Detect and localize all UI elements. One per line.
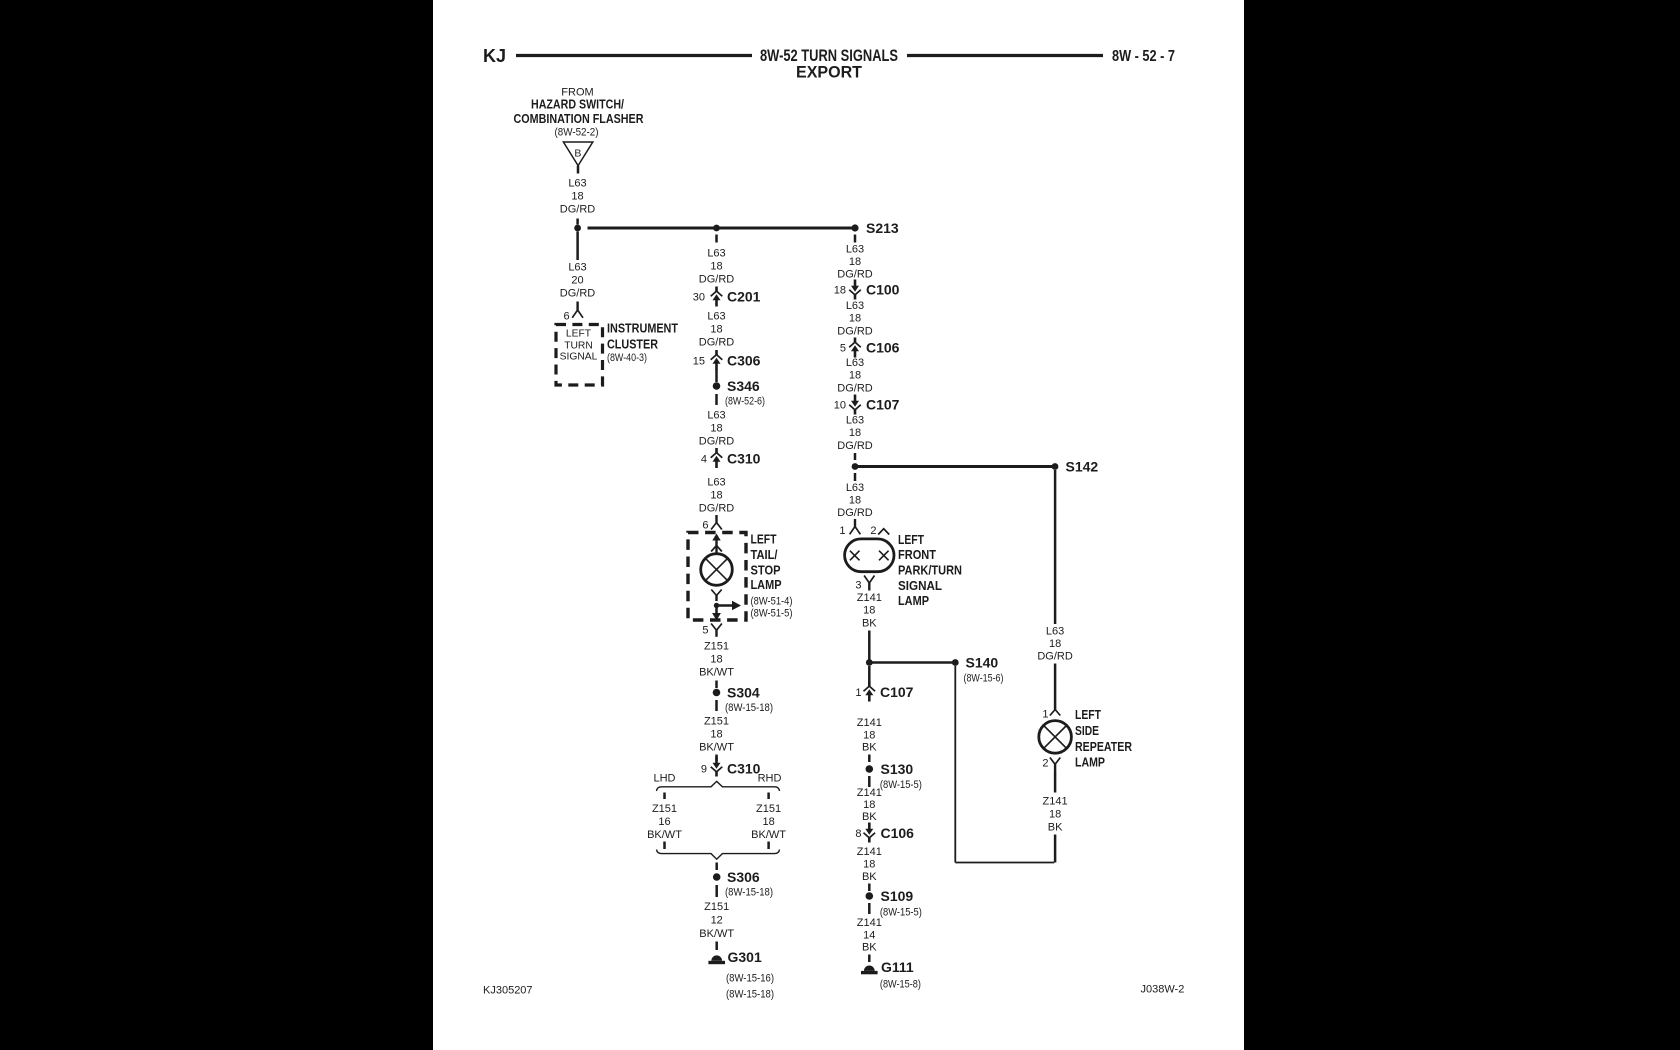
svg-text:BK/WT: BK/WT [751, 829, 786, 841]
front lamp body (stadium) [845, 539, 894, 572]
svg-text:(8W-15-8): (8W-15-8) [880, 979, 921, 991]
svg-text:Z141: Z141 [857, 717, 882, 729]
svg-text:KJ305207: KJ305207 [483, 985, 533, 997]
wire label L63 18 DG/RD [699, 311, 735, 349]
tail lamp bulb [701, 554, 733, 586]
svg-text:(8W-15-16): (8W-15-16) [726, 973, 774, 985]
svg-text:INSTRUMENT: INSTRUMENT [607, 321, 678, 336]
svg-text:16: 16 [658, 816, 670, 828]
svg-text:1: 1 [855, 687, 861, 699]
svg-text:LEFT: LEFT [566, 329, 592, 340]
svg-text:G111: G111 [881, 959, 914, 975]
internal arrow down to pin 5 [712, 606, 721, 621]
svg-text:CLUSTER: CLUSTER [607, 337, 659, 352]
component label LEFT SIDE REPEATER LAMP [1075, 708, 1132, 770]
svg-text:(8W-52-6): (8W-52-6) [725, 396, 765, 408]
wire label Z141 18 BK [857, 787, 882, 823]
svg-text:8W - 52 - 7: 8W - 52 - 7 [1112, 48, 1175, 65]
wire below junction [868, 666, 871, 683]
wire dash above S304 [715, 681, 718, 689]
svg-text:S140: S140 [966, 655, 999, 671]
svg-text:C310: C310 [727, 761, 761, 777]
wire dash below S306 [715, 885, 718, 897]
connector C107 pin 10 [834, 395, 900, 415]
svg-text:5: 5 [840, 343, 846, 355]
internal arrow to right (8W-51) [717, 601, 742, 610]
wire to corner [1054, 835, 1057, 863]
wire label L63 18 DG/RD [837, 415, 873, 453]
svg-text:BK/WT: BK/WT [699, 667, 734, 679]
svg-text:(8W-51-5): (8W-51-5) [751, 608, 793, 620]
wire label L63 20 DG/RD [560, 262, 596, 300]
wire label L63 18 DG/RD [699, 477, 735, 515]
svg-text:BK: BK [862, 942, 877, 954]
svg-text:BK/WT: BK/WT [699, 742, 734, 754]
svg-text:DG/RD: DG/RD [699, 337, 735, 349]
RHD wire dash lower [767, 842, 770, 850]
svg-text:SIGNAL: SIGNAL [898, 579, 942, 593]
wire label Z141 14 BK [857, 917, 882, 954]
bus wire to S213 [588, 227, 856, 230]
svg-text:B: B [574, 148, 581, 160]
wire label Z151 12 BK/WT [699, 901, 734, 940]
wire label L63 18 DG/RD [837, 482, 873, 519]
wire label L63 18 DG/RD [837, 244, 873, 281]
wire label Z141 18 BK [857, 592, 882, 630]
svg-text:18: 18 [834, 285, 846, 297]
wire label Z151 16 BK/WT (LHD) [647, 803, 682, 841]
svg-text:L63: L63 [568, 178, 586, 190]
instrument cluster internal label LEFT TURN SIGNAL [560, 329, 598, 363]
splice S346 (8W-52-6) [713, 378, 765, 408]
wire label Z141 18 BK [857, 846, 882, 883]
wire label Z141 18 BK [857, 717, 882, 754]
pin 6 of instrument cluster [563, 302, 583, 323]
svg-text:20: 20 [571, 275, 583, 287]
wire label Z151 18 BK/WT [699, 716, 734, 754]
wire label Z151 18 BK/WT (RHD) [751, 803, 786, 841]
svg-text:30: 30 [693, 292, 705, 304]
svg-text:(8W-51-4): (8W-51-4) [751, 596, 793, 608]
wire to instrument cluster [576, 232, 579, 261]
wire from triangle B [577, 166, 580, 174]
svg-text:18: 18 [863, 859, 875, 871]
pin 2 of left side repeater lamp [1042, 758, 1060, 772]
svg-text:BK/WT: BK/WT [647, 829, 682, 841]
svg-text:15: 15 [693, 356, 705, 368]
svg-text:Z141: Z141 [1043, 796, 1068, 808]
svg-text:FRONT: FRONT [898, 548, 936, 562]
svg-text:BK: BK [862, 811, 877, 823]
wire label Z141 18 BK [1043, 796, 1068, 834]
front lamp filament X right [879, 551, 889, 561]
ground G111 (8W-15-8) [861, 959, 921, 991]
svg-text:S142: S142 [1066, 459, 1099, 475]
svg-text:18: 18 [849, 313, 861, 325]
svg-text:LEFT: LEFT [1075, 708, 1101, 722]
svg-text:18: 18 [863, 605, 875, 617]
wire to pin 1 [1054, 664, 1057, 710]
svg-text:S346: S346 [727, 378, 760, 394]
svg-text:S213: S213 [866, 220, 899, 236]
wire from S142 down to repeater lamp [1054, 470, 1057, 624]
svg-text:14: 14 [863, 930, 875, 942]
off-page connector triangle B [563, 142, 592, 166]
header rule left [516, 54, 752, 57]
svg-text:18: 18 [710, 261, 722, 273]
svg-text:PARK/TURN: PARK/TURN [898, 564, 962, 578]
wire label L63 18 DG/RD [560, 178, 596, 216]
splice S304 (8W-15-18) [713, 685, 773, 715]
splice S130 (8W-15-5) [866, 761, 922, 791]
LHD wire dash [663, 793, 666, 800]
wire label L63 18 DG/RD [699, 410, 735, 448]
wire label L63 18 DG/RD [1037, 626, 1073, 663]
svg-text:Z151: Z151 [704, 641, 729, 653]
svg-text:DG/RD: DG/RD [1037, 651, 1073, 663]
svg-text:BK: BK [862, 871, 877, 883]
svg-text:DG/RD: DG/RD [699, 436, 735, 448]
pin 6 of left tail lamp [702, 515, 722, 532]
svg-text:2: 2 [870, 525, 876, 537]
LHD wire dash lower [663, 842, 666, 850]
wire dash above S109 [868, 884, 871, 892]
svg-text:Z151: Z151 [704, 716, 729, 728]
pin 1 of left side repeater lamp [1042, 709, 1060, 721]
svg-text:1: 1 [839, 525, 845, 537]
wire dash below S346 [715, 394, 718, 405]
wire label L63 18 DG/RD [837, 357, 873, 395]
svg-text:L63: L63 [846, 357, 864, 369]
junction node middle [713, 225, 720, 232]
splice S142 [1052, 459, 1099, 475]
left tail/stop lamp dashed box [688, 533, 746, 621]
wire dash below S130 [868, 776, 871, 787]
svg-text:C201: C201 [727, 289, 761, 305]
junction node to S140 [866, 659, 873, 666]
wire dash above G301 [715, 942, 718, 951]
repeater lamp bulb [1039, 721, 1072, 754]
svg-text:(8W-15-5): (8W-15-5) [880, 779, 922, 791]
wire dash below S304 [715, 700, 718, 711]
svg-text:EXPORT: EXPORT [796, 64, 862, 82]
RHD wire dash [767, 793, 770, 800]
pin 3 of left front park/turn signal lamp [855, 576, 874, 592]
svg-text:1: 1 [1042, 709, 1048, 721]
svg-text:(8W-15-18): (8W-15-18) [726, 989, 774, 1001]
wire dash below junction [715, 235, 718, 243]
wire dash above junction [854, 453, 857, 460]
splice S109 (8W-15-5) [866, 888, 922, 919]
svg-text:DG/RD: DG/RD [560, 204, 596, 216]
svg-text:18: 18 [849, 427, 861, 439]
svg-text:SIDE: SIDE [1075, 724, 1099, 738]
svg-text:REPEATER: REPEATER [1075, 740, 1132, 754]
svg-text:C106: C106 [881, 825, 915, 841]
svg-text:DG/RD: DG/RD [837, 507, 873, 519]
svg-text:Z151: Z151 [756, 803, 781, 815]
svg-text:TURN: TURN [564, 341, 593, 352]
wire below pin 2 [1054, 772, 1057, 793]
svg-text:BK: BK [862, 742, 877, 754]
svg-text:18: 18 [1049, 638, 1061, 650]
svg-text:Z141: Z141 [857, 846, 882, 858]
svg-text:L63: L63 [707, 410, 725, 422]
wire dash above S130 [868, 755, 871, 763]
svg-text:DG/RD: DG/RD [837, 326, 873, 338]
internal Y pin below bulb [711, 590, 721, 602]
svg-text:L63: L63 [707, 477, 725, 489]
svg-text:RHD: RHD [758, 773, 782, 785]
wire dash above S306 [715, 863, 718, 871]
component label INSTRUMENT CLUSTER (8W-40-3) [607, 321, 678, 364]
svg-text:S304: S304 [727, 685, 760, 701]
svg-text:Z141: Z141 [857, 917, 882, 929]
wire label L63 18 DG/RD [837, 300, 873, 338]
bus wire to S142 [855, 465, 1055, 468]
header rule right [907, 54, 1103, 57]
svg-text:L63: L63 [568, 262, 586, 274]
male pin inside tail lamp [711, 534, 722, 553]
svg-text:DG/RD: DG/RD [699, 503, 735, 515]
svg-text:BK: BK [862, 618, 877, 630]
svg-text:DG/RD: DG/RD [837, 383, 873, 395]
svg-text:10: 10 [834, 400, 846, 412]
svg-text:STOP: STOP [751, 564, 781, 578]
svg-text:8: 8 [855, 828, 861, 840]
svg-text:18: 18 [1049, 809, 1061, 821]
connector C107 pin 1 [855, 682, 913, 702]
svg-text:DG/RD: DG/RD [560, 288, 596, 300]
wire label L63 18 DG/RD [699, 248, 735, 286]
svg-text:LAMP: LAMP [751, 578, 782, 592]
svg-text:BK: BK [1048, 822, 1063, 834]
svg-text:18: 18 [849, 370, 861, 382]
svg-text:S306: S306 [727, 869, 760, 885]
svg-text:2: 2 [1042, 758, 1048, 770]
wire from S140 to repeater lamp return [955, 862, 1054, 864]
svg-text:18: 18 [863, 799, 875, 811]
svg-text:L63: L63 [846, 482, 864, 494]
bus wire to S140 [869, 661, 955, 664]
LHD/RHD option brace top [657, 781, 780, 791]
svg-text:6: 6 [563, 311, 569, 323]
wire dash below S213 [854, 235, 857, 243]
component label LEFT TAIL/STOP LAMP (8W-51-4)(8W-51-5) [751, 533, 793, 620]
svg-text:DG/RD: DG/RD [699, 274, 735, 286]
pin 2 of left front park/turn signal lamp [870, 525, 889, 537]
svg-text:18: 18 [710, 324, 722, 336]
svg-text:J038W-2: J038W-2 [1141, 984, 1185, 996]
wire dash below junction [854, 473, 857, 481]
svg-text:18: 18 [710, 423, 722, 435]
svg-text:L63: L63 [846, 244, 864, 256]
svg-text:18: 18 [849, 256, 861, 268]
pin 5 of left tail lamp [702, 624, 722, 637]
svg-text:C100: C100 [866, 282, 900, 298]
front lamp filament X left [850, 551, 860, 561]
svg-text:18: 18 [762, 816, 774, 828]
instrument cluster dashed box [556, 325, 603, 386]
wire down to junction [868, 631, 871, 663]
svg-text:COMBINATION FLASHER: COMBINATION FLASHER [514, 111, 644, 126]
svg-text:3: 3 [855, 580, 861, 592]
option brace bottom [657, 850, 780, 860]
source label FROM HAZARD SWITCH/COMBINATION FLASHER (8W-52-2) [514, 87, 644, 139]
svg-text:C107: C107 [880, 684, 914, 700]
svg-text:C106: C106 [866, 340, 900, 356]
svg-text:(8W-15-5): (8W-15-5) [880, 907, 922, 919]
svg-text:18: 18 [710, 654, 722, 666]
wire dash above G111 [868, 955, 871, 963]
svg-text:Z141: Z141 [857, 787, 882, 799]
svg-text:6: 6 [702, 520, 708, 532]
junction node left [574, 225, 581, 232]
svg-text:C306: C306 [727, 353, 761, 369]
svg-text:HAZARD SWITCH/: HAZARD SWITCH/ [531, 97, 624, 112]
connector C106 pin 8 [855, 823, 914, 843]
svg-text:L63: L63 [707, 311, 725, 323]
svg-text:18: 18 [863, 730, 875, 742]
splice S306 (8W-15-18) [713, 869, 773, 899]
svg-text:LHD: LHD [653, 773, 675, 785]
svg-text:DG/RD: DG/RD [837, 269, 873, 281]
svg-text:KJ: KJ [483, 46, 506, 66]
svg-text:BK/WT: BK/WT [699, 928, 734, 940]
wire label Z151 18 BK/WT [699, 641, 734, 679]
splice S213 [851, 220, 899, 236]
wire dash above junction [576, 219, 579, 225]
svg-text:C310: C310 [727, 451, 761, 467]
connector C106 pin 5 [840, 338, 900, 358]
svg-text:Z141: Z141 [857, 592, 882, 604]
svg-text:G301: G301 [728, 949, 762, 965]
svg-text:5: 5 [702, 625, 708, 637]
svg-text:8W-52 TURN SIGNALS: 8W-52 TURN SIGNALS [760, 47, 898, 65]
svg-text:LEFT: LEFT [898, 533, 924, 547]
pin 1 of left front park/turn signal lamp [839, 519, 860, 537]
svg-text:L63: L63 [846, 300, 864, 312]
svg-text:(8W-52-2): (8W-52-2) [555, 127, 599, 139]
svg-text:TAIL/: TAIL/ [751, 548, 778, 562]
component label LEFT FRONT PARK/TURN SIGNAL LAMP [898, 533, 962, 608]
svg-text:L63: L63 [707, 248, 725, 260]
svg-text:SIGNAL: SIGNAL [560, 352, 598, 363]
svg-text:LAMP: LAMP [898, 594, 929, 608]
svg-text:Z151: Z151 [652, 803, 677, 815]
splice S140 (8W-15-6) [952, 655, 1004, 685]
svg-text:18: 18 [571, 191, 583, 203]
svg-text:S130: S130 [881, 761, 914, 777]
junction node to S142 [852, 463, 859, 470]
svg-text:18: 18 [710, 729, 722, 741]
wire dash below S109 [868, 903, 871, 914]
svg-text:S109: S109 [881, 888, 914, 904]
svg-text:L63: L63 [1046, 626, 1064, 638]
connector C310 pin 4 [701, 448, 761, 468]
wire into splice S346 [715, 370, 718, 383]
wire from S140 down [954, 666, 956, 863]
svg-text:18: 18 [710, 490, 722, 502]
svg-text:LEFT: LEFT [751, 533, 777, 547]
svg-text:4: 4 [701, 454, 707, 466]
svg-text:LAMP: LAMP [1075, 756, 1105, 770]
ground G301 (8W-15-16)(8W-15-18) [708, 949, 774, 1001]
svg-text:12: 12 [711, 915, 723, 927]
svg-text:(8W-15-18): (8W-15-18) [725, 702, 773, 714]
svg-text:9: 9 [701, 764, 707, 776]
connector C310 pin 9 [701, 755, 761, 777]
connector C306 pin 15 [693, 350, 761, 370]
svg-text:(8W-15-18): (8W-15-18) [725, 887, 773, 899]
svg-text:C107: C107 [866, 397, 900, 413]
svg-text:18: 18 [849, 495, 861, 507]
connector C201 pin 30 [693, 287, 761, 307]
connector C100 pin 18 [834, 280, 900, 300]
svg-text:DG/RD: DG/RD [837, 440, 873, 452]
svg-text:Z151: Z151 [704, 901, 729, 913]
svg-text:L63: L63 [846, 415, 864, 427]
internal junction dot [714, 603, 719, 608]
svg-text:(8W-40-3): (8W-40-3) [607, 352, 647, 364]
svg-text:(8W-15-6): (8W-15-6) [964, 673, 1004, 685]
